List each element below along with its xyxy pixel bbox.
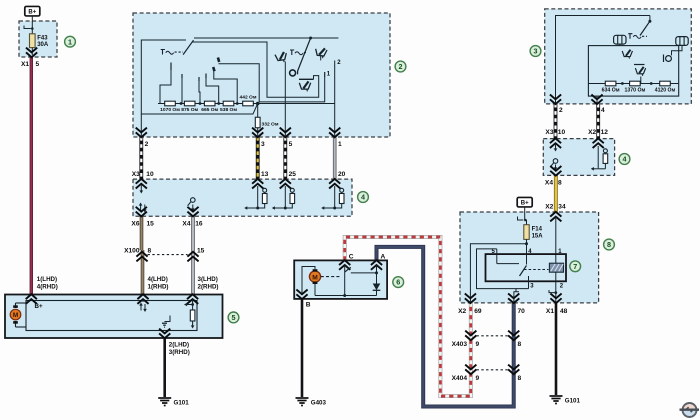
svg-text:G101: G101 bbox=[565, 398, 581, 405]
svg-text:15: 15 bbox=[147, 221, 155, 228]
svg-text:X100: X100 bbox=[124, 248, 140, 255]
svg-text:34: 34 bbox=[558, 204, 566, 211]
svg-text:332 Ом: 332 Ом bbox=[262, 122, 279, 128]
svg-text:5: 5 bbox=[36, 61, 40, 68]
svg-text:M: M bbox=[312, 274, 318, 281]
svg-text:B: B bbox=[306, 302, 311, 309]
svg-text:X3: X3 bbox=[132, 171, 140, 178]
svg-text:1(LHD): 1(LHD) bbox=[37, 276, 57, 283]
svg-text:2(LHD): 2(LHD) bbox=[169, 342, 189, 349]
svg-text:70: 70 bbox=[518, 308, 526, 315]
svg-text:20: 20 bbox=[338, 171, 346, 178]
svg-text:30A: 30A bbox=[37, 42, 49, 48]
svg-text:G101: G101 bbox=[174, 400, 190, 407]
svg-text:9: 9 bbox=[476, 341, 480, 348]
svg-text:2: 2 bbox=[399, 62, 403, 71]
svg-text:4(RHD): 4(RHD) bbox=[37, 284, 58, 291]
svg-text:69: 69 bbox=[474, 308, 482, 315]
svg-text:4120 Ом: 4120 Ом bbox=[655, 88, 676, 94]
svg-text:10: 10 bbox=[146, 171, 154, 178]
svg-text:1: 1 bbox=[338, 141, 342, 148]
svg-text:8: 8 bbox=[148, 248, 152, 255]
svg-text:8: 8 bbox=[558, 179, 562, 186]
svg-text:3(RHD): 3(RHD) bbox=[169, 349, 190, 356]
svg-text:2(RHD): 2(RHD) bbox=[198, 284, 219, 291]
svg-text:F14: F14 bbox=[532, 226, 543, 232]
svg-text:3: 3 bbox=[261, 141, 265, 148]
svg-text:X2: X2 bbox=[545, 204, 553, 211]
svg-text:1370 Ом: 1370 Ом bbox=[624, 88, 645, 94]
svg-text:634 Ом: 634 Ом bbox=[602, 88, 620, 94]
svg-text:X4: X4 bbox=[545, 179, 553, 186]
svg-text:X2: X2 bbox=[588, 129, 596, 136]
svg-text:442 Ом: 442 Ом bbox=[240, 95, 257, 101]
svg-text:X403: X403 bbox=[452, 341, 468, 348]
svg-text:3: 3 bbox=[534, 47, 538, 56]
svg-text:1(RHD): 1(RHD) bbox=[148, 284, 169, 291]
svg-text:X404: X404 bbox=[452, 375, 468, 382]
svg-text:16: 16 bbox=[195, 221, 203, 228]
svg-text:X1: X1 bbox=[21, 61, 29, 68]
svg-text:4: 4 bbox=[623, 155, 627, 164]
svg-text:2: 2 bbox=[559, 107, 563, 114]
svg-text:X2: X2 bbox=[458, 308, 466, 315]
svg-text:B+: B+ bbox=[521, 201, 529, 207]
svg-text:48: 48 bbox=[560, 308, 568, 315]
svg-text:9: 9 bbox=[476, 375, 480, 382]
svg-text:X3: X3 bbox=[545, 129, 553, 136]
svg-text:C: C bbox=[349, 254, 354, 261]
svg-text:M: M bbox=[13, 312, 18, 319]
svg-text:F43: F43 bbox=[37, 35, 48, 41]
svg-text:1070 Ом: 1070 Ом bbox=[160, 107, 180, 113]
svg-text:15: 15 bbox=[197, 248, 205, 255]
svg-text:538 Ом: 538 Ом bbox=[220, 107, 237, 113]
svg-text:4: 4 bbox=[601, 107, 605, 114]
svg-text:7: 7 bbox=[573, 262, 577, 271]
svg-text:5: 5 bbox=[289, 141, 293, 148]
svg-text:25: 25 bbox=[289, 171, 297, 178]
svg-text:X1: X1 bbox=[546, 308, 554, 315]
svg-text:3(LHD): 3(LHD) bbox=[198, 276, 218, 283]
svg-text:X6: X6 bbox=[131, 221, 139, 228]
svg-text:665 Ом: 665 Ом bbox=[201, 107, 218, 113]
svg-text:G403: G403 bbox=[311, 400, 327, 407]
svg-text:8: 8 bbox=[518, 341, 522, 348]
svg-text:13: 13 bbox=[261, 171, 269, 178]
svg-text:8: 8 bbox=[607, 240, 611, 249]
svg-text:6: 6 bbox=[396, 278, 400, 287]
svg-text:A: A bbox=[381, 254, 386, 261]
svg-text:4(LHD): 4(LHD) bbox=[148, 276, 168, 283]
svg-text:1: 1 bbox=[68, 37, 72, 46]
svg-text:4: 4 bbox=[361, 193, 365, 202]
svg-text:X4: X4 bbox=[182, 221, 190, 228]
svg-text:10: 10 bbox=[558, 129, 566, 136]
svg-text:875 Ом: 875 Ом bbox=[181, 107, 198, 113]
svg-text:B+: B+ bbox=[28, 10, 36, 16]
svg-text:12: 12 bbox=[601, 129, 609, 136]
svg-text:8: 8 bbox=[518, 375, 522, 382]
svg-text:2: 2 bbox=[145, 141, 149, 148]
svg-text:15A: 15A bbox=[532, 233, 544, 239]
svg-text:5: 5 bbox=[232, 313, 236, 322]
